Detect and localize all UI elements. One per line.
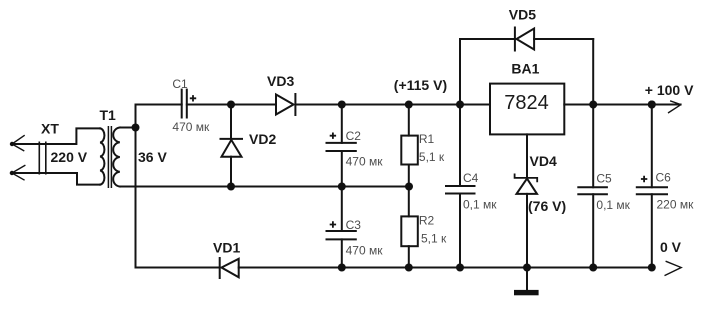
svg-text:XT: XT: [41, 121, 59, 137]
svg-text:C5: C5: [596, 172, 612, 186]
svg-text:5,1 к: 5,1 к: [419, 150, 445, 164]
svg-text:VD1: VD1: [213, 240, 240, 256]
svg-text:220 V: 220 V: [51, 149, 88, 165]
svg-text:VD4: VD4: [530, 153, 557, 169]
svg-text:36 V: 36 V: [138, 149, 167, 165]
svg-text:0 V: 0 V: [660, 239, 682, 255]
svg-text:C1: C1: [172, 77, 188, 91]
svg-text:VD2: VD2: [249, 131, 276, 147]
svg-text:BA1: BA1: [511, 61, 539, 77]
svg-text:470 мк: 470 мк: [346, 155, 384, 169]
svg-text:5,1 к: 5,1 к: [421, 232, 447, 246]
svg-text:470 мк: 470 мк: [346, 244, 384, 258]
svg-text:(76 V): (76 V): [528, 198, 566, 214]
svg-text:(+115 V): (+115 V): [394, 77, 447, 93]
svg-text:220 мк: 220 мк: [657, 198, 695, 212]
svg-text:R1: R1: [419, 132, 435, 146]
svg-text:C3: C3: [346, 218, 362, 232]
svg-text:C6: C6: [656, 171, 672, 185]
svg-text:0,1 мк: 0,1 мк: [463, 198, 497, 212]
svg-text:VD3: VD3: [267, 73, 294, 89]
svg-text:VD5: VD5: [509, 7, 536, 23]
svg-text:C4: C4: [463, 171, 479, 185]
svg-text:+ 100 V: + 100 V: [645, 82, 694, 98]
svg-text:7824: 7824: [504, 92, 549, 114]
svg-text:470 мк: 470 мк: [172, 120, 210, 134]
svg-text:R2: R2: [419, 214, 435, 228]
svg-text:C2: C2: [346, 129, 362, 143]
svg-text:T1: T1: [100, 107, 117, 123]
svg-text:0,1 мк: 0,1 мк: [596, 198, 630, 212]
